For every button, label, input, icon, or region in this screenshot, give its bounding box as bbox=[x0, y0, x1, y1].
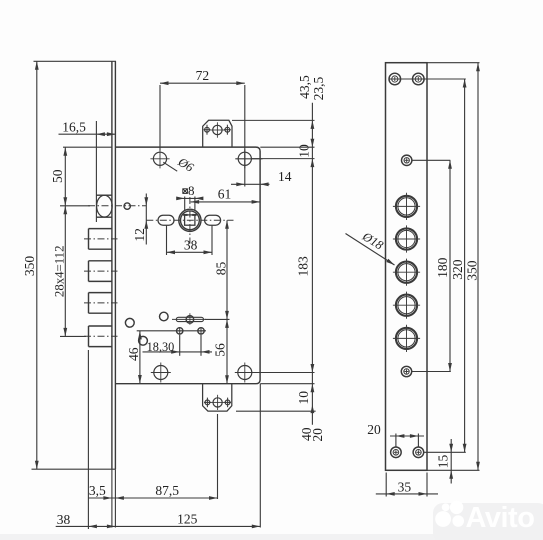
svg-text:180: 180 bbox=[435, 257, 450, 278]
avito logo top-right circle bbox=[450, 501, 463, 514]
plate top screw left bbox=[389, 73, 401, 85]
plate bottom edge extension right bbox=[427, 469, 480, 471]
lock lever bar bbox=[176, 317, 203, 321]
svg-text:35: 35 bbox=[398, 480, 412, 495]
arrow at tab top bbox=[311, 120, 315, 128]
ring hole B bbox=[125, 318, 134, 327]
handle slot right bbox=[205, 215, 221, 225]
svg-text:8: 8 bbox=[188, 183, 195, 198]
latch center line bbox=[88, 205, 146, 207]
svg-text:10: 10 bbox=[296, 391, 311, 405]
spindle hub inner circle bbox=[181, 211, 200, 230]
pivot row line bbox=[137, 330, 206, 332]
hole dia6 left bbox=[153, 152, 166, 165]
svg-text:72: 72 bbox=[196, 68, 210, 83]
svg-text:61: 61 bbox=[218, 187, 232, 202]
body top extension line left bbox=[63, 146, 112, 148]
svg-text:125: 125 bbox=[177, 512, 198, 527]
svg-text:12: 12 bbox=[132, 228, 147, 242]
dim line 180 bbox=[449, 160, 451, 371]
faceplate strip left edge bbox=[111, 61, 113, 469]
body bottom extension right bbox=[260, 383, 314, 385]
avito logo top-left circle bbox=[442, 503, 450, 511]
svg-text:15: 15 bbox=[436, 455, 451, 469]
avito logo big circle bbox=[435, 511, 451, 527]
svg-text:14: 14 bbox=[278, 169, 292, 184]
lever row extension right bbox=[205, 318, 230, 320]
svg-text:28x4=112: 28x4=112 bbox=[52, 246, 66, 298]
svg-text:46: 46 bbox=[126, 347, 141, 361]
lock body outline bbox=[115, 147, 260, 384]
svg-text:10: 10 bbox=[297, 144, 312, 158]
dim 72 extension right bbox=[244, 85, 246, 187]
plate upper screw row line bbox=[412, 159, 450, 161]
dim line 320 bbox=[464, 79, 466, 452]
strip small hole bbox=[124, 203, 130, 209]
top tab left screw hole bbox=[205, 127, 210, 132]
lever center boss bbox=[186, 316, 194, 324]
svg-text:3,5: 3,5 bbox=[89, 483, 106, 498]
plate bottom screw row line bbox=[424, 451, 466, 453]
dim 20 extension lines bbox=[395, 434, 397, 448]
plate bottom screw right bbox=[413, 447, 424, 458]
dim 72 extension left bbox=[159, 85, 161, 151]
faceplate strip right edge bbox=[114, 61, 116, 469]
avito logo bottom-right circle bbox=[452, 515, 464, 527]
label square-8 symbol bbox=[183, 189, 188, 194]
svg-text:87,5: 87,5 bbox=[155, 483, 179, 498]
dim line 72 bbox=[160, 82, 245, 84]
square hole 8mm bbox=[185, 215, 195, 225]
svg-text:38: 38 bbox=[57, 512, 71, 527]
dim line 85 bbox=[226, 220, 228, 319]
handle slot left bbox=[158, 215, 174, 225]
svg-text:43,5: 43,5 bbox=[297, 75, 312, 99]
page bottom gray band bbox=[0, 534, 543, 540]
dim line 35 bbox=[376, 493, 438, 495]
dim 18,30 extension lines bbox=[179, 335, 181, 356]
bottom hole left bbox=[154, 366, 168, 380]
plate big hole 2 dia18 bbox=[396, 228, 417, 249]
top hole row extension right bbox=[252, 158, 315, 160]
deadbolt 1 center line bbox=[84, 238, 118, 240]
dim line 61 bbox=[191, 201, 261, 203]
dim line 38 bbox=[167, 251, 213, 253]
dim 38 extension lines bbox=[166, 226, 168, 255]
deadbolt 3 bbox=[89, 292, 112, 294]
lever vertical center line bbox=[189, 313, 191, 325]
dim line 56 bbox=[226, 319, 228, 383]
dim line 38 and 125 bbox=[56, 525, 261, 527]
plate lower screw row line bbox=[412, 371, 451, 373]
dim line 8 bbox=[177, 197, 202, 199]
body right edge extension to bottom dim bbox=[259, 384, 261, 528]
dim 8 extension lines bbox=[184, 197, 186, 212]
dim line 50 bbox=[64, 147, 66, 206]
dim line 15 bbox=[450, 439, 452, 484]
right dim vertical line bbox=[311, 103, 313, 425]
dim line 12 bbox=[145, 194, 147, 245]
top mounting tab bbox=[203, 120, 232, 147]
dim 35 extension lines bbox=[385, 473, 387, 497]
dim line 14 bbox=[231, 183, 270, 185]
deadbolt 3 center line bbox=[84, 302, 118, 304]
bottom hole right bbox=[238, 366, 252, 380]
tab top extension right bbox=[232, 119, 315, 121]
tab bottom extension right bbox=[236, 410, 316, 412]
dim line 46 bbox=[139, 331, 141, 384]
hub vertical center line bbox=[189, 197, 191, 244]
dim line 18,30 bbox=[143, 351, 213, 353]
deadbolt 2 bbox=[89, 260, 112, 262]
arrow below body bottom bbox=[311, 384, 315, 393]
bolt face extension line bbox=[87, 350, 89, 529]
plate top edge extension right bbox=[427, 62, 480, 64]
bottom mounting tab bbox=[203, 384, 232, 411]
svg-text:20: 20 bbox=[367, 422, 381, 437]
top tab right screw hole bbox=[225, 127, 230, 132]
arrow at bottom hole row bbox=[311, 364, 315, 373]
svg-text:18,30: 18,30 bbox=[147, 340, 175, 354]
arrow at body top bbox=[311, 139, 315, 148]
square hole corner marks bbox=[183, 214, 187, 216]
bottom tab center hole bbox=[213, 398, 222, 407]
latch face vertical line bbox=[95, 121, 97, 222]
faceplate strip top edge + 350 extension line bbox=[34, 60, 117, 62]
hub horizontal center line bbox=[146, 219, 233, 221]
svg-text:Avito: Avito bbox=[466, 502, 535, 534]
dim line 20 bbox=[390, 435, 424, 437]
svg-text:50: 50 bbox=[50, 169, 65, 183]
svg-text:16,5: 16,5 bbox=[62, 119, 86, 134]
deadbolt 1 bbox=[89, 228, 112, 230]
plate upper cylinder screw bbox=[402, 155, 412, 165]
latch housing bottom bbox=[96, 216, 112, 218]
leader dia18 bbox=[346, 234, 395, 266]
plate big hole 1 dia18 bbox=[396, 196, 417, 217]
dim line 350 left bbox=[36, 61, 38, 469]
dim line 350 right bbox=[477, 63, 479, 471]
plate bottom screw left bbox=[391, 447, 402, 458]
spindle hub outer circle bbox=[179, 209, 201, 231]
ring hole C bbox=[139, 336, 148, 345]
deadbolt 2 center line bbox=[84, 270, 118, 272]
faceplate strip left edge extension to bottom dims bbox=[111, 469, 113, 527]
arrow above tab bottom bbox=[311, 405, 315, 414]
svg-text:350: 350 bbox=[465, 260, 480, 281]
plate top screw right bbox=[413, 73, 425, 85]
svg-text:350: 350 bbox=[22, 256, 37, 277]
bottom hole row extension right bbox=[252, 372, 315, 374]
lever horizontal center line bbox=[172, 318, 206, 320]
svg-text:38: 38 bbox=[184, 237, 198, 252]
plate big hole 4 dia18 bbox=[396, 295, 417, 316]
hole dia6 right bbox=[238, 152, 251, 165]
latch bolt rounded head bbox=[97, 195, 113, 217]
dim line 16,5 bbox=[59, 133, 116, 135]
pivot screw left bbox=[177, 328, 183, 334]
svg-text:56: 56 bbox=[212, 343, 227, 357]
dim line 3,5 and 87,5 bbox=[88, 497, 217, 499]
plate lower cylinder screw bbox=[401, 366, 411, 376]
ring hole A bbox=[160, 312, 169, 321]
dim line 28x4=112 bbox=[64, 206, 66, 337]
svg-text:85: 85 bbox=[213, 262, 228, 276]
svg-text:320: 320 bbox=[450, 259, 465, 280]
faceplate strip bottom extension line bbox=[32, 468, 116, 470]
top tab center hole bbox=[213, 125, 222, 134]
deadbolt 4 center line bbox=[84, 335, 118, 337]
svg-text:183: 183 bbox=[295, 256, 310, 277]
plate top screw row line bbox=[389, 78, 466, 80]
pivot screw right bbox=[198, 328, 204, 334]
avito watermark panel bbox=[433, 503, 543, 540]
latch center extension left bbox=[60, 205, 90, 207]
bottom tab left screw hole bbox=[205, 400, 210, 405]
plate big hole 3 dia18 bbox=[396, 262, 417, 283]
bolt4 center extension left bbox=[60, 335, 86, 337]
latch housing top bbox=[96, 194, 112, 196]
plate big hole 5 dia18 bbox=[396, 328, 417, 349]
body top extension right bbox=[260, 146, 314, 148]
svg-text:20: 20 bbox=[310, 428, 325, 442]
tab center extension down bbox=[217, 414, 219, 499]
faceplate strip right edge extension to bottom dims bbox=[114, 469, 116, 527]
svg-text:23,5: 23,5 bbox=[311, 76, 326, 100]
arrow below top hole row bbox=[311, 159, 315, 168]
bottom tab right screw hole bbox=[225, 400, 230, 405]
leader dia6 bbox=[163, 162, 177, 171]
deadbolt 4 bbox=[89, 325, 112, 327]
face plate outline bbox=[386, 63, 428, 471]
